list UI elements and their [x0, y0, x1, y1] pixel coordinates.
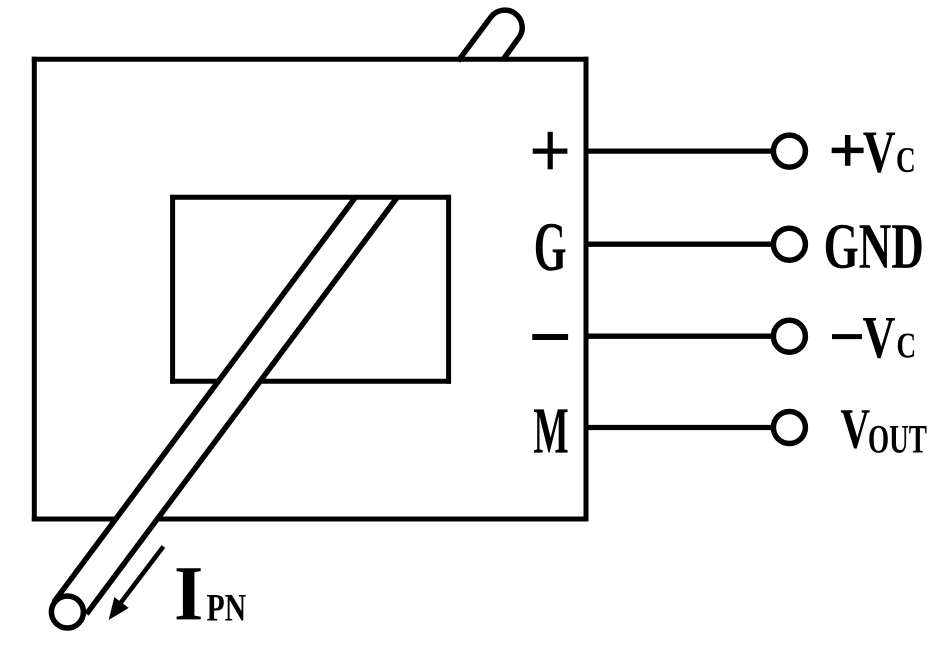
- label Vout: [841, 410, 870, 448]
- aperture window outline (top/left/right): [170, 195, 175, 384]
- pin stub +: [586, 148, 773, 153]
- terminal circle -Vc: [773, 320, 805, 352]
- label Ipn: [177, 568, 201, 619]
- current arrow: [119, 547, 163, 606]
- pin stub M: [586, 425, 773, 430]
- pin stub -: [586, 334, 773, 339]
- pin label M: [534, 409, 568, 452]
- label +Vc: [832, 135, 864, 166]
- transducer case outline (top/left/right): [32, 57, 37, 522]
- pin label +: [533, 132, 568, 170]
- primary conductor lower segment: [51, 180, 402, 628]
- transducer case bottom edge: [32, 517, 589, 522]
- pin label -: [532, 334, 568, 340]
- pin label G: [536, 224, 566, 271]
- pin stub G: [586, 242, 773, 247]
- primary conductor top cap: [458, 10, 522, 61]
- label GND: [826, 225, 922, 269]
- terminal circle GND: [773, 228, 805, 260]
- label -Vc: [832, 334, 862, 339]
- terminal circle Vout: [773, 412, 805, 444]
- aperture window bottom edge: [170, 379, 451, 384]
- terminal circle +Vc: [773, 135, 805, 167]
